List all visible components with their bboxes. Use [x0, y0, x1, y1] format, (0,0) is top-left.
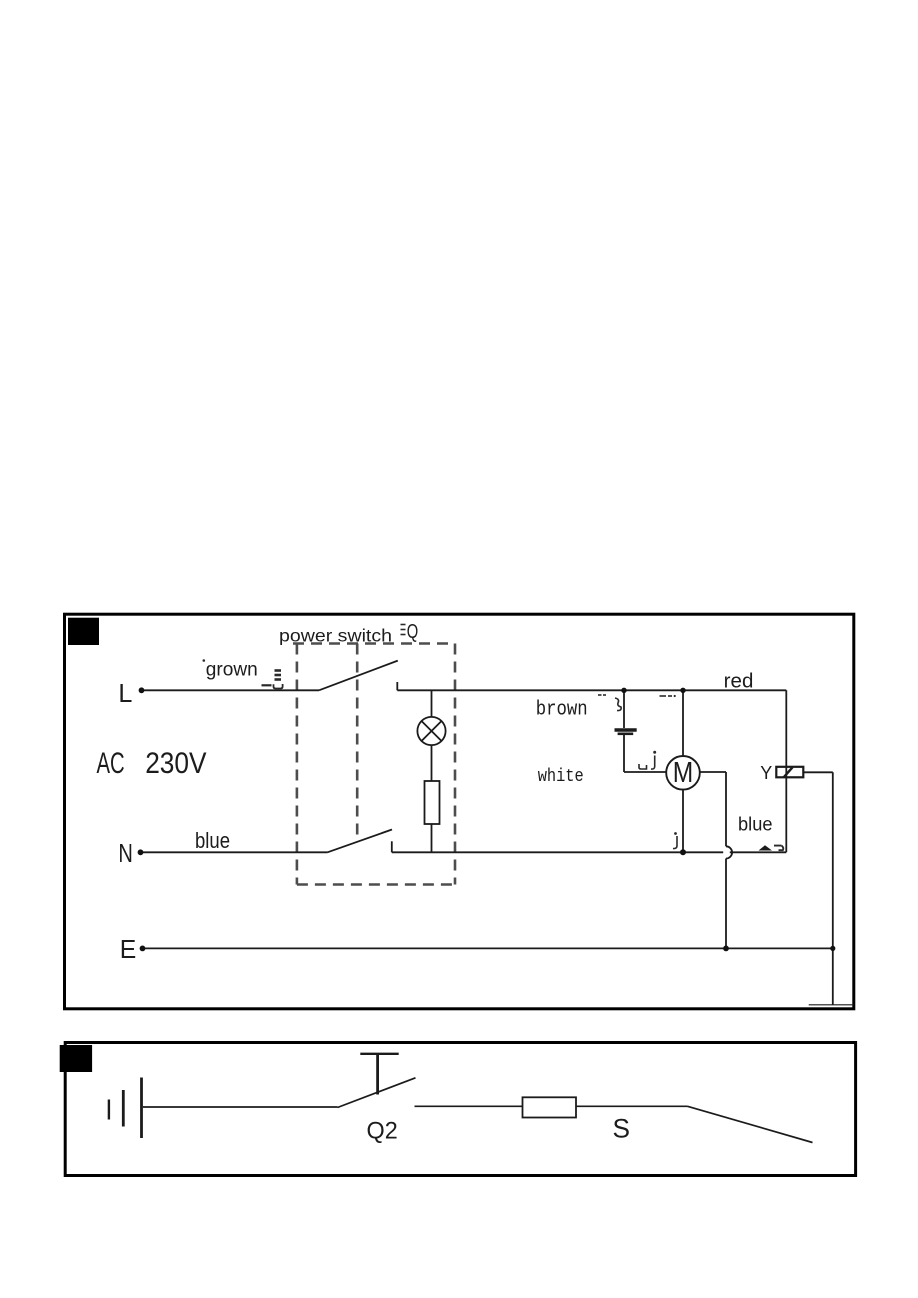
svg-text:N: N: [118, 838, 132, 868]
svg-text:grown: grown: [206, 660, 258, 681]
svg-text:Q2: Q2: [367, 1118, 398, 1145]
svg-text:brown: brown: [536, 699, 588, 722]
svg-text:L: L: [118, 678, 132, 708]
svg-text:230V: 230V: [145, 747, 206, 780]
svg-text:E: E: [120, 934, 137, 964]
svg-text:Y: Y: [760, 762, 773, 783]
svg-text:M: M: [673, 757, 694, 789]
svg-text:Q: Q: [407, 620, 419, 643]
svg-text:blue: blue: [195, 828, 230, 853]
svg-text:white: white: [538, 767, 584, 787]
svg-text:AC: AC: [97, 747, 125, 780]
svg-text:red: red: [724, 671, 754, 693]
svg-text:S: S: [613, 1113, 631, 1143]
svg-text:power switch: power switch: [279, 625, 392, 645]
svg-text:blue: blue: [738, 814, 773, 836]
